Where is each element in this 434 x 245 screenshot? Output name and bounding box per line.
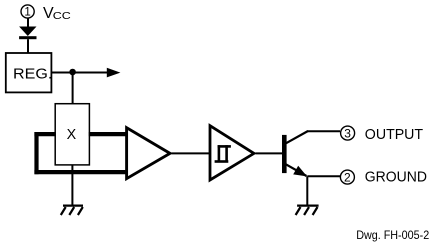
- svg-text:GROUND: GROUND: [365, 170, 427, 186]
- svg-text:3: 3: [344, 127, 351, 141]
- svg-text:Dwg. FH-005-2: Dwg. FH-005-2: [356, 229, 429, 242]
- svg-text:X: X: [67, 127, 77, 143]
- svg-text:1: 1: [24, 7, 30, 19]
- svg-text:REG.: REG.: [13, 66, 52, 83]
- svg-text:CC: CC: [53, 10, 71, 22]
- svg-text:OUTPUT: OUTPUT: [365, 127, 423, 143]
- svg-text:2: 2: [344, 171, 351, 185]
